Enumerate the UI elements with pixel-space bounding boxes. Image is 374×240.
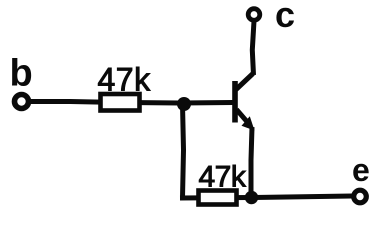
svg-text:e: e [352, 152, 370, 188]
svg-text:b: b [10, 53, 33, 95]
terminal c [248, 9, 260, 21]
transistor Q1 collector stroke [236, 74, 253, 90]
transistor Q1 emitter stroke with arrow [237, 110, 250, 125]
terminal b [15, 95, 29, 109]
terminal e [354, 190, 367, 203]
svg-text:c: c [275, 0, 295, 35]
resistor R1 47k [101, 94, 140, 111]
junction node B (emitter/bottom) [245, 191, 258, 204]
wire base: b terminal to transistor base [29, 102, 233, 104]
svg-text:47k: 47k [98, 62, 152, 98]
wire collector lead up to c [252, 21, 254, 75]
wire vertical: junction down to bottom rail [183, 104, 184, 198]
junction node A (base divider) [177, 97, 191, 111]
wire emitter lead down to bottom junction [251, 127, 252, 192]
svg-text:47k: 47k [199, 161, 247, 194]
transistor Q1 base bar [232, 81, 238, 123]
resistor R2 47k [199, 191, 237, 205]
wire bottom rail: to e terminal [180, 196, 352, 198]
